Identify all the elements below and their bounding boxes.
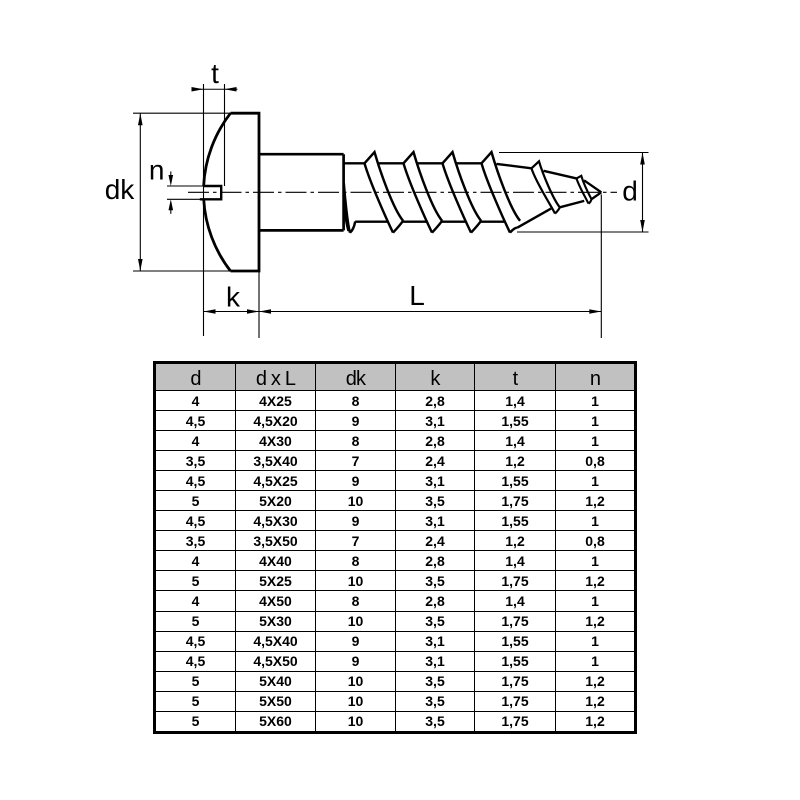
thread turn 1 (crest+flank) bbox=[365, 152, 404, 233]
thread turn 3 bbox=[443, 152, 482, 233]
arrow t left bbox=[192, 87, 204, 92]
arrow k left bbox=[204, 309, 216, 314]
arrow dk bottom bbox=[138, 259, 143, 271]
extension line dk top bbox=[133, 112, 238, 114]
arrow k right bbox=[247, 309, 259, 314]
extension line t/k left (dome tangent) bbox=[203, 84, 205, 336]
arrow L right bbox=[589, 309, 601, 314]
head dome arc upper bbox=[204, 113, 231, 186]
arrow t right bbox=[225, 87, 237, 92]
thread root line bottom segments bbox=[355, 220, 505, 222]
svg-text:L: L bbox=[409, 280, 425, 311]
extension line d top bbox=[499, 152, 649, 154]
arrow L left bbox=[259, 309, 271, 314]
centerline (screw axis) bbox=[188, 191, 617, 193]
extension line d bottom bbox=[517, 231, 649, 233]
shank (smooth cylinder) bbox=[259, 154, 344, 230]
extension line dk bottom bbox=[133, 270, 238, 272]
taper mid crest bbox=[532, 161, 560, 213]
arrow d top bbox=[640, 153, 645, 165]
arrow n bottom with shaft bbox=[170, 204, 172, 214]
arrow d bottom bbox=[640, 220, 645, 232]
svg-text:k: k bbox=[226, 282, 241, 313]
slot n extension line bottom bbox=[167, 198, 205, 200]
svg-text:t: t bbox=[211, 58, 219, 89]
svg-text:n: n bbox=[149, 155, 165, 186]
svg-text:dk: dk bbox=[105, 174, 136, 205]
head outline (round head, right face + top/bottom seats) bbox=[231, 113, 260, 271]
thread root line top segments bbox=[344, 162, 482, 164]
taper bottom silhouette bbox=[517, 192, 601, 228]
taper tiny crest bbox=[577, 176, 592, 204]
taper top silhouette bbox=[497, 164, 602, 192]
head dome arc lower bbox=[204, 199, 231, 271]
dimension line dk bbox=[139, 113, 141, 271]
extension line tip bbox=[600, 195, 602, 339]
dimension line t bbox=[192, 88, 238, 90]
svg-text:d: d bbox=[622, 176, 638, 207]
extension line t right (slot bottom) bbox=[224, 84, 226, 186]
first partial bottom crest at shank end bbox=[344, 183, 355, 233]
arrow dk top bbox=[138, 113, 143, 125]
arrow n top with shaft bbox=[170, 172, 172, 182]
thread turn 4 bbox=[482, 152, 521, 233]
slot outline (thick) bbox=[200, 186, 221, 199]
dimension line d bbox=[642, 153, 644, 233]
extension line head face below bbox=[258, 271, 260, 338]
dimension line k and L bbox=[204, 311, 602, 313]
slot n extension line top bbox=[167, 185, 205, 187]
thread turn 2 bbox=[404, 152, 443, 233]
